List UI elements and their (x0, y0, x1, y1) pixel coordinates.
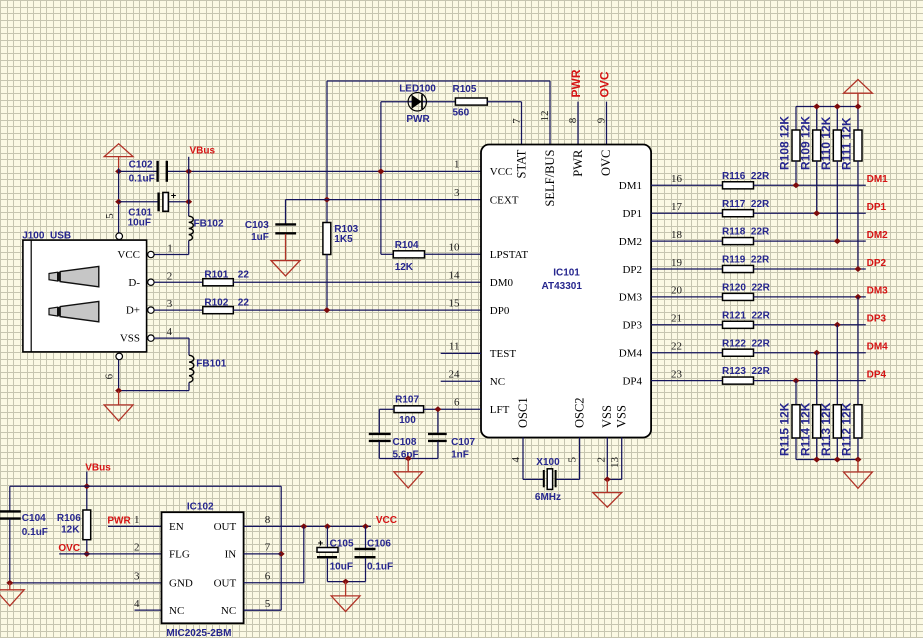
wire R112 top (857, 297, 859, 405)
svg-text:LPSTAT: LPSTAT (490, 249, 529, 261)
svg-text:7: 7 (265, 542, 271, 554)
wire C101 right to VBus line (169, 201, 189, 203)
svg-text:R113 12K: R113 12K (819, 402, 833, 456)
wire VBus stub down (86, 472, 88, 511)
junction rail R109 (813, 104, 820, 110)
svg-text:MIC2025-2BM: MIC2025-2BM (166, 628, 231, 638)
label R123 22R (722, 366, 771, 377)
resistor R103 (323, 223, 331, 255)
junction R112 net (855, 294, 862, 300)
wire R120 to net DM3 (754, 296, 866, 298)
svg-text:14: 14 (449, 269, 461, 281)
junction rail R114 (813, 457, 820, 463)
wire PWR to EN (108, 525, 162, 527)
J100 contact lower (49, 301, 99, 321)
wire FB102 to J100 pin1 (154, 241, 189, 255)
IC102 pin 5 number (265, 598, 271, 610)
net label OVC (bottom) (58, 543, 80, 554)
capacitor C107 (428, 434, 447, 441)
wire OSC1 to crystal (523, 438, 544, 480)
svg-text:22: 22 (238, 270, 250, 281)
wire IC101 to R116 (651, 184, 722, 186)
wire to C102 left plate (119, 170, 158, 172)
J100 pin 5 circle (116, 233, 123, 240)
label R113 12K (rotated) (819, 402, 833, 456)
wire pin9 stub (606, 102, 608, 145)
label IC101 AT43301 (542, 268, 583, 292)
label MIC2025-2BM (166, 628, 231, 639)
capacitor C106 (355, 549, 376, 557)
wire GND rail to pin3 (10, 582, 162, 584)
IC101 pin 16 number (671, 173, 683, 185)
svg-text:1: 1 (454, 159, 460, 171)
resistor R112 (854, 405, 862, 438)
label R109 12K (rotated) (798, 116, 812, 170)
junction CEXT/R103 (323, 197, 330, 203)
junction C104/gnd (6, 580, 13, 586)
svg-text:C108: C108 (393, 437, 417, 448)
svg-text:DM0: DM0 (490, 277, 514, 289)
wire R118 to net DM2 (754, 240, 866, 242)
svg-text:R109 12K: R109 12K (798, 116, 812, 170)
junction shield gnd (115, 388, 122, 394)
wire pin7 stub (244, 553, 282, 555)
wire R109 bottom (816, 161, 818, 213)
resistor R101 (203, 279, 234, 286)
svg-text:NC: NC (490, 376, 505, 388)
IC101 left pin names (490, 166, 529, 416)
svg-text:R115 12K: R115 12K (778, 402, 792, 456)
label R111 12K (rotated) (840, 117, 854, 170)
svg-text:DM1: DM1 (867, 174, 889, 185)
svg-text:OVC: OVC (58, 543, 80, 554)
svg-text:SELF/BUS: SELF/BUS (543, 150, 557, 207)
svg-text:DM4: DM4 (619, 348, 643, 360)
junction rail R110 (834, 104, 841, 110)
svg-text:+: + (318, 538, 324, 549)
svg-text:D+: D+ (126, 305, 140, 317)
wire R109 top (816, 107, 818, 131)
wire CEXT (286, 200, 482, 224)
svg-text:FB102: FB102 (194, 219, 224, 230)
svg-text:12: 12 (539, 111, 551, 122)
svg-text:LFT: LFT (490, 404, 510, 416)
net label PWR (rotated) (569, 69, 583, 97)
resistor R111 (854, 130, 862, 161)
label J100 USB (22, 230, 71, 241)
svg-text:R106: R106 (57, 513, 81, 524)
svg-text:R102: R102 (204, 298, 228, 309)
svg-text:10uF: 10uF (330, 561, 353, 572)
svg-text:13: 13 (609, 457, 621, 469)
wire TEST stub (441, 352, 481, 354)
label C101 value (128, 207, 153, 228)
svg-text:1uF: 1uF (251, 232, 269, 243)
svg-text:VCC: VCC (376, 515, 397, 526)
wire pulldown bottom rail (796, 459, 858, 461)
wire IC101 to R122 (651, 352, 722, 354)
svg-text:GND: GND (169, 578, 193, 590)
svg-text:R118 22R: R118 22R (722, 227, 770, 238)
ground (USB shield) (104, 391, 133, 421)
label R106 value (57, 513, 81, 535)
svg-text:8: 8 (265, 514, 271, 526)
ferrite bead FB102 (189, 216, 194, 240)
junction IN pin (278, 551, 285, 557)
svg-text:PWR: PWR (107, 515, 131, 526)
junction LED branch on VCC rail (377, 168, 384, 174)
power VBUS arrow (top-right) (844, 80, 873, 105)
IC101 pin 4 number (510, 457, 522, 463)
svg-text:IC102: IC102 (187, 502, 214, 513)
ground (C103) (271, 234, 300, 276)
wire R107 right (424, 409, 438, 433)
svg-text:R104: R104 (395, 240, 419, 251)
IC102 pin 7 number (265, 542, 271, 554)
svg-text:R114 12K: R114 12K (798, 402, 812, 456)
wire R112 bottom (857, 438, 859, 460)
IC101 pin 20 number (671, 285, 683, 297)
IC101 pin 13 number (609, 457, 621, 469)
resistor R117 (723, 210, 754, 217)
junction rail R111/power (855, 104, 862, 110)
svg-text:6MHz: 6MHz (535, 492, 561, 503)
svg-text:AT43301: AT43301 (542, 281, 583, 292)
svg-text:DP4: DP4 (867, 369, 887, 380)
label R122 22R (722, 338, 771, 349)
wire VSS pins (607, 438, 621, 480)
svg-text:VSS: VSS (615, 405, 629, 428)
junction C101 left (115, 199, 122, 205)
svg-text:1: 1 (167, 243, 173, 255)
net label DM1 (867, 174, 889, 185)
svg-text:DP2: DP2 (622, 264, 642, 276)
J100 pin circle VCC (148, 251, 154, 257)
wire R107 left (379, 409, 394, 433)
svg-text:560: 560 (453, 108, 470, 119)
svg-text:22: 22 (671, 341, 682, 353)
svg-text:DP1: DP1 (622, 208, 642, 220)
svg-text:12K: 12K (395, 262, 414, 273)
label IC102 (187, 502, 214, 513)
svg-text:STAT: STAT (514, 149, 528, 178)
svg-text:12K: 12K (61, 524, 80, 535)
junction rail R112/gnd (855, 457, 862, 463)
svg-text:PWR: PWR (406, 114, 430, 125)
svg-text:VCC: VCC (117, 249, 140, 261)
svg-text:D-: D- (128, 277, 140, 289)
svg-text:22: 22 (238, 298, 250, 309)
svg-text:VSS: VSS (120, 333, 140, 345)
label R114 12K (rotated) (798, 402, 812, 456)
junction R103/DP0 (323, 307, 330, 313)
capacitor C105 (polarized) (317, 538, 338, 557)
label C104 value (22, 513, 48, 538)
svg-text:10uF: 10uF (128, 218, 151, 229)
label X100 (536, 457, 560, 468)
wire pullup top rail (796, 106, 858, 108)
svg-text:R111 12K: R111 12K (840, 117, 854, 170)
svg-text:+: + (171, 191, 177, 202)
wire OSC2 to crystal (555, 438, 580, 480)
svg-text:DP3: DP3 (867, 314, 887, 325)
svg-text:OUT: OUT (214, 578, 237, 590)
svg-text:DM2: DM2 (867, 230, 889, 241)
IC101 pin 15 number (449, 297, 461, 309)
svg-text:VBus: VBus (190, 146, 216, 157)
label R120 22R (722, 283, 771, 294)
label R112 12K (rotated) (840, 402, 854, 456)
svg-text:X100: X100 (536, 457, 560, 468)
wire to C101 left plate (119, 201, 158, 203)
resistor R109 (813, 130, 821, 161)
IC101 pin 24 number (449, 368, 461, 380)
wire J100 pin6 down (118, 360, 120, 391)
IC101 pin 18 number (671, 229, 683, 241)
svg-text:R119 22R: R119 22R (722, 255, 770, 266)
svg-text:3: 3 (454, 187, 460, 199)
label R118 22R (722, 227, 770, 238)
net label VCC (376, 515, 397, 526)
net label VBus (top) (190, 146, 216, 157)
net label VBus (bottom) (85, 462, 111, 473)
IC101 pin 21 number (671, 313, 682, 325)
svg-text:0.1uF: 0.1uF (367, 561, 393, 572)
capacitor C103 (275, 224, 296, 233)
label C105 value (330, 538, 354, 572)
junction C101 right (185, 199, 192, 205)
label R105 (453, 84, 477, 95)
IC101 pin 17 number (671, 201, 683, 213)
label FB102 (194, 219, 224, 230)
wire R104 branch (381, 253, 393, 255)
op-amp IC101 body (481, 145, 651, 438)
resistor R104 (393, 251, 424, 258)
net label DM3 (867, 286, 889, 297)
svg-text:100: 100 (399, 415, 416, 426)
junction R115 net (793, 378, 800, 384)
ground (VSS) (593, 479, 622, 507)
wire J100 VSS to FB101 (154, 338, 189, 355)
J100 pin 2 number (167, 270, 173, 282)
net label DP4 (867, 369, 887, 380)
svg-text:OVC: OVC (597, 71, 611, 97)
svg-text:2: 2 (134, 542, 140, 554)
net label DP1 (867, 202, 887, 213)
resistor R106 (83, 510, 91, 540)
wire C105 bottom (326, 558, 328, 581)
IC102 right pin names (214, 521, 237, 617)
wire pin4 stub (135, 609, 162, 611)
wire IC101 to R118 (651, 240, 722, 242)
wire OVC to FLG (59, 553, 161, 555)
IC102 pin 1 number (134, 514, 140, 526)
J100 pin circle VSS (148, 335, 154, 341)
svg-text:VCC: VCC (490, 166, 513, 178)
svg-text:VBus: VBus (85, 462, 111, 473)
capacitor C101 (polarized) (159, 191, 177, 212)
svg-text:R123 22R: R123 22R (722, 366, 771, 377)
wire LFT (438, 408, 481, 410)
svg-text:17: 17 (671, 201, 683, 213)
svg-text:6: 6 (454, 397, 460, 409)
label FB101 (196, 358, 226, 369)
J100 pin 4 number (167, 326, 173, 338)
net label OVC (rotated) (597, 71, 611, 97)
wire C105 top (326, 526, 328, 547)
IC101 pin 14 number (449, 269, 461, 281)
svg-text:PWR: PWR (569, 69, 583, 97)
junction R111 net (855, 266, 862, 272)
wire IC101 to R119 (651, 268, 722, 270)
IC101 pin 19 number (671, 257, 683, 269)
svg-text:TEST: TEST (490, 348, 517, 360)
junction LFT/C107 (434, 406, 441, 412)
wire C104 bottom (9, 519, 11, 583)
wire R105 to pin7 (487, 102, 521, 145)
IC101 pin 5 number (567, 457, 579, 463)
wire VBus rail to IN (10, 486, 281, 610)
resistor R102 (203, 307, 234, 314)
wire R103 to DP0 (326, 255, 328, 311)
svg-text:11: 11 (449, 341, 460, 353)
junction R106/OVC (83, 551, 90, 557)
wire caps to gnd rail (379, 442, 438, 459)
J100 contact upper (49, 266, 99, 286)
wire R119 to net DP2 (754, 268, 866, 270)
net label DM4 (867, 342, 889, 353)
resistor R115 (792, 405, 800, 438)
IC102 pin 4 number (134, 598, 140, 610)
svg-text:6: 6 (265, 571, 271, 583)
IC101 pin 9 number (596, 117, 608, 123)
svg-text:CEXT: CEXT (490, 194, 519, 206)
wire top SELF/BUS (327, 81, 550, 223)
wire R101 to IC101 DM0 (233, 281, 481, 283)
svg-text:FB101: FB101 (196, 358, 226, 369)
svg-text:9: 9 (596, 117, 608, 123)
wire R121 to net DP3 (754, 324, 866, 326)
junction C105/C106 gnd (342, 579, 349, 585)
resistor R121 (723, 321, 754, 328)
wire R108 bottom (795, 161, 797, 185)
junction R113 net (834, 322, 841, 328)
ground (pulldowns) (844, 460, 873, 489)
wire R104 to LPSTAT (425, 253, 482, 255)
label C107 value (451, 437, 475, 461)
label R101 22 (204, 270, 249, 281)
junction C106 (362, 523, 369, 529)
wire NC stub (441, 380, 481, 382)
IC101 pin 6 number (454, 397, 460, 409)
label 6MHz (535, 492, 561, 503)
wire R111 top (857, 107, 859, 131)
svg-text:DM2: DM2 (619, 236, 642, 248)
svg-text:DP4: DP4 (622, 375, 642, 387)
svg-text:DP2: DP2 (867, 258, 887, 269)
IC101 right pin names (619, 180, 643, 387)
svg-text:R116 22R: R116 22R (722, 171, 770, 182)
svg-text:DM3: DM3 (619, 292, 643, 304)
J100 pin 1 number (167, 243, 173, 255)
wire C105/C106 gnd rail (327, 581, 365, 583)
label R102 22 (204, 298, 249, 309)
IC101 top pin names (514, 149, 613, 207)
wire R111 bottom (857, 161, 859, 269)
wire R106 bottom (86, 540, 88, 554)
label R104 value (395, 240, 419, 273)
IC101 pin 22 number (671, 341, 682, 353)
svg-text:15: 15 (449, 297, 461, 309)
svg-text:R105: R105 (453, 84, 477, 95)
IC101 pin 8 number (567, 117, 579, 123)
wire IC101 to R117 (651, 212, 722, 214)
svg-text:1nF: 1nF (451, 449, 469, 460)
svg-text:C102: C102 (129, 160, 153, 171)
label R119 22R (722, 255, 770, 266)
svg-text:OSC1: OSC1 (516, 397, 530, 428)
capacitor C102 (158, 161, 167, 182)
svg-text:PWR: PWR (571, 149, 585, 177)
svg-text:1: 1 (134, 514, 140, 526)
svg-text:R110 12K: R110 12K (819, 116, 833, 170)
wire R115 top (795, 381, 797, 405)
svg-text:OVC: OVC (599, 150, 613, 176)
svg-text:C107: C107 (451, 437, 475, 448)
svg-text:NC: NC (221, 605, 236, 617)
capacitor C104 (0, 511, 21, 518)
svg-text:R107: R107 (395, 395, 419, 406)
resistor R108 (792, 130, 800, 161)
junction rail R113 (834, 457, 841, 463)
label LED100 (399, 83, 436, 94)
svg-text:4: 4 (167, 326, 173, 338)
resistor R107 (394, 406, 424, 413)
IC101 pin 2 number (595, 457, 607, 463)
svg-text:DP1: DP1 (867, 202, 887, 213)
label R117 22R (722, 199, 770, 210)
wire R123 to net DP4 (754, 380, 866, 382)
wire R115 bottom (795, 438, 797, 460)
wire R122 to net DM4 (754, 352, 866, 354)
wire power stem to C101 level (118, 168, 120, 233)
power VBUS arrow (top-left) (104, 144, 133, 168)
capacitor C108 (369, 434, 391, 441)
wire LED branch vertical (380, 102, 382, 255)
junction R108 net (793, 182, 800, 188)
IC101 pin 12 number (539, 111, 551, 122)
svg-text:C106: C106 (367, 538, 391, 549)
svg-text:3: 3 (134, 571, 140, 583)
net label DP3 (867, 314, 887, 325)
junction OUT pins (300, 523, 307, 529)
junction VBus rail/R106 (83, 483, 90, 489)
resistor R110 (833, 130, 841, 161)
svg-text:4: 4 (510, 457, 522, 463)
svg-text:23: 23 (671, 368, 683, 380)
IC102 pin 8 number (265, 514, 271, 526)
svg-text:2: 2 (167, 270, 173, 282)
connector J100 body (23, 240, 147, 352)
svg-text:EN: EN (169, 521, 184, 533)
resistor R113 (833, 405, 841, 438)
wire VCC rail C102 to IC101 pin1 (168, 170, 481, 172)
wire R114 bottom (816, 438, 818, 460)
resistor R118 (723, 238, 754, 245)
wire R110 bottom (836, 161, 838, 241)
svg-text:R121 22R: R121 22R (722, 310, 771, 321)
J100 pin names (117, 249, 140, 345)
